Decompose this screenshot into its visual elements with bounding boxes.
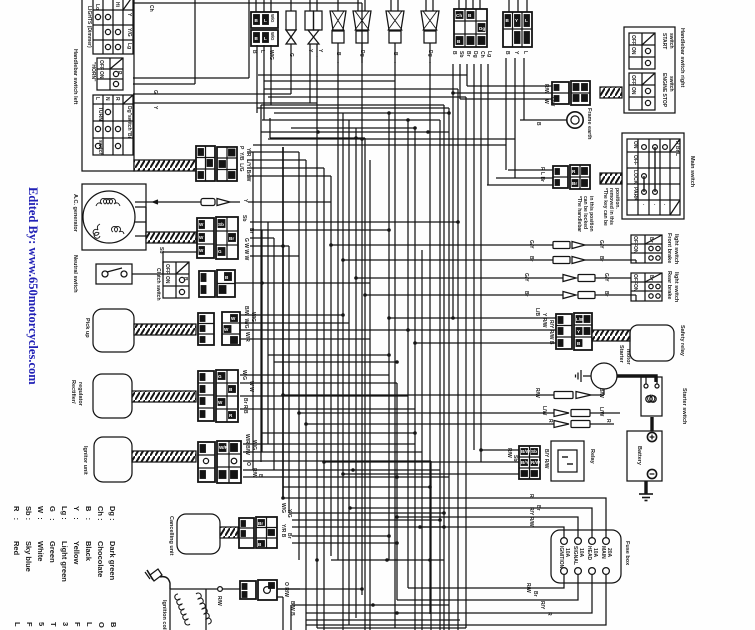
svg-text:in this position: in this position [588, 196, 594, 232]
hatched cable handlebar left [134, 160, 196, 171]
svg-text:Starter switch: Starter switch [681, 388, 687, 425]
svg-text:L: L [525, 18, 528, 23]
engine stop switch grid [629, 73, 674, 110]
svg-text:ON: ON [630, 87, 636, 95]
svg-text:START: START [661, 33, 667, 49]
svg-text:B: B [182, 277, 188, 281]
svg-text:regulator: regulator [77, 382, 83, 407]
svg-text:Frame earth: Frame earth [586, 108, 592, 140]
fuse box [551, 530, 630, 583]
neutral switch wire [132, 247, 197, 274]
svg-text:Clutch switch: Clutch switch [155, 268, 161, 301]
svg-text:Y/R B: Y/R B [280, 524, 286, 538]
clutch switch connector [199, 270, 235, 297]
svg-text:L/W: L/W [541, 406, 547, 415]
svg-text:Dg: Dg [472, 51, 478, 58]
svg-text:motor: motor [625, 349, 631, 365]
svg-text:can be locked: can be locked [582, 196, 588, 229]
svg-text:LOCK: LOCK [632, 170, 638, 185]
handlebar switch left (outer box) [72, 0, 134, 171]
connector cluster ignitor [198, 441, 241, 483]
svg-text:Sb: Sb [512, 455, 518, 461]
connector cluster generator [197, 217, 238, 259]
rectifier / regulator [70, 374, 132, 418]
svg-text:O: O [97, 622, 106, 628]
svg-text:B: B [109, 622, 118, 628]
horn switch grid [90, 58, 123, 90]
starter switch [641, 377, 687, 425]
svg-text:OFF: OFF [630, 35, 636, 45]
svg-text:F: F [73, 622, 82, 627]
main switch grid [627, 139, 680, 215]
connector handlebar right [552, 81, 590, 105]
labels relay connector [506, 448, 549, 469]
neutral switch [72, 255, 132, 293]
labels cluster handlebar-left [238, 146, 251, 182]
frame earth [520, 108, 592, 140]
svg-text:B/Y R/W: B/Y R/W [543, 449, 549, 469]
cancelling unit [168, 514, 220, 556]
svg-text:Relay: Relay [589, 449, 595, 465]
svg-text:Br: Br [648, 275, 654, 281]
svg-text:Dg: Dg [427, 50, 433, 57]
svg-text:5: 5 [37, 622, 46, 626]
svg-text:Br: Br [258, 521, 263, 526]
svg-text:Light green: Light green [60, 541, 69, 582]
front brake wire G/Y [465, 240, 631, 249]
svg-text:Sb: Sb [458, 51, 464, 57]
svg-text:Y: Y [577, 329, 580, 334]
hatched cable safety relay [592, 330, 630, 341]
connector cluster rectifier [198, 370, 238, 422]
ignition coil [161, 589, 218, 630]
svg-text:*The handlebar: *The handlebar [576, 196, 582, 232]
front brake light switch [631, 233, 679, 265]
svg-text:R/Y R/W: R/Y R/W [528, 507, 534, 527]
ignition coil wire node [216, 587, 240, 606]
battery [627, 431, 662, 481]
colour legend [12, 506, 118, 628]
svg-text:Sb :: Sb : [24, 506, 33, 520]
connector ignition [240, 580, 300, 616]
labels connector main switch [539, 167, 545, 182]
hatched cable rectifier [132, 391, 196, 402]
svg-text:Br: Br [532, 591, 538, 597]
wires cluster A to bus [247, 152, 331, 176]
svg-text:Chocolate: Chocolate [96, 541, 105, 577]
svg-text:L: L [264, 36, 267, 41]
svg-text:switch: switch [97, 140, 103, 156]
svg-text:Br: Br [535, 505, 541, 511]
svg-text:G :: G : [48, 506, 57, 521]
starter motor [591, 345, 631, 389]
svg-text:HEAD: HEAD [586, 546, 592, 561]
hatched cable cancelling [220, 527, 238, 538]
svg-text:Fuse box: Fuse box [624, 541, 630, 566]
lights dimmer switch grid [86, 0, 133, 54]
svg-text:"HORN": "HORN" [90, 62, 96, 82]
svg-text:light switch: light switch [673, 234, 679, 265]
start switch grid [629, 33, 674, 69]
connector main switch [553, 165, 590, 189]
svg-text:Ch :: Ch : [96, 506, 105, 521]
svg-text:OFF: OFF [630, 75, 636, 85]
wires ignitor cluster to bus [243, 444, 449, 630]
A.C. generator [72, 184, 146, 250]
svg-text:Br R B: Br R B [242, 398, 248, 414]
svg-text:W: W [231, 316, 236, 321]
svg-text:ON: ON [98, 71, 104, 79]
svg-text:Br: Br [523, 291, 529, 297]
svg-text:B :: B : [84, 506, 93, 520]
svg-text:P Y/B L/G: P Y/B L/G [238, 146, 244, 172]
svg-text:Rectifier/: Rectifier/ [70, 380, 76, 404]
svg-text:W/G: W/G [280, 503, 286, 513]
turn switch grid [93, 95, 133, 156]
svg-text:Br: Br [229, 236, 234, 241]
connector cluster pick up [198, 312, 240, 345]
hatched cable main switch [600, 173, 622, 184]
svg-text:Front brake: Front brake [666, 233, 672, 263]
hatched cable pick up [134, 324, 196, 335]
svg-text:Lg :: Lg : [60, 506, 69, 520]
clutch switch grid [155, 262, 189, 301]
labels cluster ignitor [244, 434, 263, 478]
starter bullet wire R/W [470, 388, 604, 399]
wires pick up cluster to bus [240, 315, 408, 339]
svg-text:F: F [25, 622, 34, 627]
svg-text:R/W: R/W [534, 388, 540, 398]
svg-text:G W W W: G W W W [243, 238, 249, 260]
svg-text:Sb: Sb [241, 215, 247, 221]
svg-text:O: O [245, 462, 251, 466]
rear brake light switch [631, 271, 679, 303]
svg-text:R/Y R/W B: R/Y R/W B [548, 320, 554, 345]
svg-text:A.C. generator: A.C. generator [72, 194, 78, 233]
top connector pair tail lights [251, 0, 278, 46]
svg-text:B/W: B/W [598, 388, 604, 398]
svg-text:*The key can be: *The key can be [602, 188, 608, 226]
wire clutch to bus [235, 282, 370, 284]
wires safety relay rows into bus [389, 318, 483, 343]
svg-text:N: N [104, 97, 110, 101]
svg-text:Br: Br [528, 256, 534, 262]
starter bullet wire R [480, 419, 614, 428]
svg-text:B: B [504, 51, 510, 55]
wires into relay connector [0, 0, 1, 1]
svg-text:Battery: Battery [636, 446, 642, 466]
svg-text:W: W [199, 235, 204, 240]
starter bullet wire L/W [475, 406, 620, 417]
svg-text:ON: ON [632, 246, 638, 254]
svg-text:SIGNAL: SIGNAL [572, 546, 578, 565]
svg-text:Yellow: Yellow [72, 541, 81, 565]
svg-text:R Br L: R Br L [674, 141, 680, 156]
battery ground symbol [639, 494, 653, 501]
svg-text:T: T [49, 622, 58, 627]
svg-text:G: G [288, 53, 294, 57]
wire top-left corner runs [133, 0, 271, 120]
lamp 5 (flasher bulb) [386, 0, 404, 63]
svg-text:switch: switch [668, 33, 674, 49]
svg-text:Ignition coil: Ignition coil [161, 600, 167, 630]
svg-text:L: L [522, 51, 528, 54]
svg-text:OFF: OFF [164, 264, 170, 274]
svg-text:ENGINE STOP: ENGINE STOP [661, 73, 667, 108]
svg-text:B/Y: B/Y [521, 460, 529, 465]
svg-text:Br: Br [286, 533, 292, 539]
hatched cable ignitor [132, 451, 196, 462]
starter motor ground [576, 370, 592, 382]
wire verticals from meter cluster [453, 64, 488, 462]
relay connector [519, 446, 541, 479]
top-right connector cluster meters [454, 0, 487, 47]
svg-text:Neutral switch: Neutral switch [72, 255, 78, 293]
svg-text:L/B: L/B [534, 308, 540, 316]
svg-text:L/B: L/B [576, 317, 584, 322]
svg-text:Hi: Hi [114, 2, 120, 8]
svg-text:OFF: OFF [632, 155, 638, 165]
svg-text:L: L [264, 18, 267, 23]
wire Ch from handlebar left [133, 3, 362, 12]
connector cluster handlebar-left [196, 146, 237, 181]
svg-text:R/Y: R/Y [539, 601, 545, 610]
svg-text:removed in this: removed in this [608, 188, 614, 225]
wires into safety relay connector [448, 318, 556, 343]
hatched cable handlebar right [600, 87, 622, 98]
svg-text:light switch: light switch [673, 272, 679, 303]
wire Y from turn switch [133, 103, 317, 110]
ignitor unit [82, 437, 132, 482]
svg-text:3: 3 [61, 622, 70, 626]
svg-text:R: R [605, 419, 611, 423]
svg-text:10A: 10A [578, 548, 584, 558]
generator phase wires [135, 207, 146, 236]
front brake wire Br [470, 256, 636, 264]
svg-text:G/Y: G/Y [523, 273, 529, 282]
wire verticals from headlight cluster [506, 58, 524, 178]
svg-text:R: R [528, 494, 534, 498]
svg-text:B: B [392, 52, 398, 56]
pickup wire with bullet connectors [135, 199, 331, 206]
svg-text:Cancelling unit: Cancelling unit [168, 516, 174, 556]
svg-text:IGNITION: IGNITION [558, 546, 564, 569]
svg-text:TURN: TURN [97, 107, 103, 121]
svg-text:Lg: Lg [486, 51, 492, 57]
svg-text:Pick up: Pick up [84, 318, 90, 338]
svg-text:B: B [451, 51, 457, 55]
svg-text:W/G: W/G [251, 440, 257, 450]
svg-text:G/Y: G/Y [528, 240, 534, 249]
wire top horizontals [253, 75, 515, 145]
wires cancelling unit to bus [289, 513, 444, 543]
svg-text:B/W: B/W [521, 449, 531, 454]
svg-text:B: B [251, 50, 257, 54]
svg-text:R/W: R/W [531, 460, 541, 465]
svg-text:B/W B: B/W B [289, 601, 295, 616]
handlebar switch right box [624, 27, 685, 113]
svg-text:ON: ON [632, 141, 638, 149]
svg-text:switch: switch [668, 76, 674, 92]
svg-text:Sb: Sb [218, 222, 224, 227]
wires starter rows into bus [283, 395, 480, 424]
note key removal [576, 188, 620, 232]
lamp 6 (flasher bulb) [421, 0, 439, 63]
svg-text:L: L [13, 622, 22, 627]
lamp 3 (flasher bulb) [330, 0, 346, 63]
spark plug [145, 569, 170, 589]
junction dots [260, 91, 483, 615]
svg-text:Ch: Ch [148, 5, 154, 12]
labels top connector [251, 50, 274, 60]
rear brake wire G/Y [455, 273, 631, 282]
relay [551, 441, 595, 481]
svg-text:Black: Black [84, 541, 93, 562]
svg-text:Main switch: Main switch [689, 156, 695, 188]
labels fuse top wires [528, 494, 541, 527]
safety relay [630, 325, 685, 361]
svg-text:O R/W: O R/W [283, 582, 289, 597]
svg-text:ON: ON [632, 284, 638, 292]
svg-text:OFF: OFF [632, 274, 638, 284]
wires relay rows into bus [324, 450, 519, 474]
svg-text:Dg :: Dg : [108, 506, 117, 521]
svg-text:L: L [94, 97, 100, 100]
svg-text:Br: Br [598, 256, 604, 262]
thick wire starter motor to switch [617, 376, 656, 382]
svg-text:LIGHTS (Dimmer): LIGHTS (Dimmer) [86, 6, 92, 48]
svg-text:MAIN: MAIN [600, 546, 606, 559]
svg-text:Green: Green [48, 541, 57, 563]
wire G from turn switch [133, 90, 291, 94]
wires into handlebar right connector [468, 86, 552, 99]
svg-text:R: R [546, 612, 552, 616]
labels safety relay connector [534, 308, 554, 345]
svg-text:W :: W : [36, 506, 45, 520]
svg-text:Y/G: Y/G [126, 28, 132, 37]
wires handlebar right feed [453, 86, 552, 99]
svg-text:B/W W/G: B/W W/G [243, 306, 249, 329]
wires generator cluster to bus [250, 222, 458, 256]
svg-text:OFF: OFF [632, 236, 638, 246]
svg-text:position.: position. [614, 188, 620, 209]
svg-text:R/W: R/W [525, 583, 531, 593]
rear brake wire Br [460, 291, 636, 301]
svg-text:20A: 20A [606, 548, 612, 558]
svg-text:Handlebar switch left: Handlebar switch left [72, 49, 78, 104]
svg-text:Dark green: Dark green [108, 541, 117, 581]
labels cluster cancelling [280, 503, 292, 539]
wires into main switch connector [487, 170, 553, 185]
svg-text:Y :: Y : [72, 506, 81, 520]
svg-text:R/W: R/W [216, 596, 222, 606]
svg-text:Y R/W: Y R/W [541, 313, 547, 328]
svg-text:Red: Red [12, 541, 21, 556]
svg-text:R: R [547, 419, 553, 423]
svg-text:Dg"switch"Br: Dg"switch"Br [126, 106, 132, 139]
svg-text:G/Y: G/Y [598, 240, 604, 249]
lamp 2 (double bulb) [305, 0, 323, 103]
connector cluster cancelling [239, 517, 277, 548]
svg-text:W: W [224, 327, 229, 332]
svg-text:G: G [218, 249, 222, 254]
svg-text:W: W [199, 222, 204, 227]
lamp 4 (flasher bulb) [353, 0, 371, 63]
svg-text:W: W [543, 99, 549, 104]
svg-text:Handlebar switch right: Handlebar switch right [679, 28, 685, 87]
svg-text:R :: R : [12, 506, 21, 520]
svg-text:ON: ON [630, 47, 636, 55]
svg-text:G: G [152, 90, 158, 94]
labels cluster headlight [504, 51, 528, 55]
svg-text:Safety relay: Safety relay [679, 325, 685, 357]
svg-text:L: L [85, 622, 94, 627]
labels cluster meters [451, 51, 492, 58]
svg-text:W/R: W/R [244, 332, 250, 342]
svg-text:Br: Br [572, 181, 577, 186]
labels fuse bottom wires [525, 583, 552, 616]
top-right connector cluster headlight [503, 0, 532, 47]
svg-text:OFF: OFF [98, 60, 104, 70]
wires bottom ignition bus [277, 560, 466, 628]
svg-text:W/G: W/G [270, 14, 275, 22]
thick wire battery plus to starter switch [650, 417, 653, 431]
wires brake rows into bus [331, 245, 470, 295]
wires rectifier cluster to bus [240, 375, 415, 600]
labels connector handlebar right [543, 84, 555, 106]
svg-text:Rear brake: Rear brake [666, 271, 672, 299]
svg-text:G/Y: G/Y [603, 273, 609, 282]
svg-text:B: B [535, 122, 541, 126]
svg-text:W: W [218, 400, 223, 405]
svg-text:Br: Br [465, 51, 471, 57]
svg-text:10A: 10A [592, 548, 598, 558]
hatched cable generator [146, 232, 196, 243]
wire mid verticals [262, 89, 466, 630]
svg-text:Starter: Starter [618, 345, 624, 364]
svg-text:White: White [36, 541, 45, 561]
pick up unit [84, 309, 134, 352]
svg-text:Br: Br [603, 291, 609, 297]
watermark: Edited By: www.650motorcycles.com [26, 187, 40, 385]
labels cluster rectifier [241, 370, 254, 414]
svg-text:ON: ON [164, 276, 170, 284]
svg-text:Lg: Lg [126, 43, 132, 49]
wires ignition B/W B down [277, 597, 291, 630]
thick wire battery minus to ground [644, 481, 647, 494]
svg-text:Ch: Ch [456, 13, 462, 18]
fuse box top wires [284, 498, 606, 538]
labels cluster pick up [243, 306, 256, 342]
svg-text:W: W [199, 248, 204, 253]
svg-text:Lo: Lo [94, 4, 100, 10]
svg-text:Ignitor unit: Ignitor unit [82, 446, 88, 475]
fuse box bottom wires [306, 574, 606, 625]
svg-text:Sb: Sb [531, 449, 537, 454]
svg-text:Sky blue: Sky blue [24, 541, 33, 572]
svg-text:L/W: L/W [598, 407, 604, 416]
svg-text:Edited By: www.650motorcycles.: Edited By: www.650motorcycles.com [26, 187, 40, 385]
svg-text:Br: Br [648, 237, 654, 243]
svg-text:W/R: W/R [219, 445, 229, 450]
svg-text:PARK: PARK [632, 187, 638, 201]
svg-text:G: G [218, 374, 222, 379]
lamp 1 (single bulb) [286, 0, 296, 94]
wire bus verticals from top connectors [253, 11, 430, 628]
main switch box [622, 133, 695, 219]
safety relay connector [556, 313, 592, 350]
svg-text:B: B [335, 52, 341, 56]
